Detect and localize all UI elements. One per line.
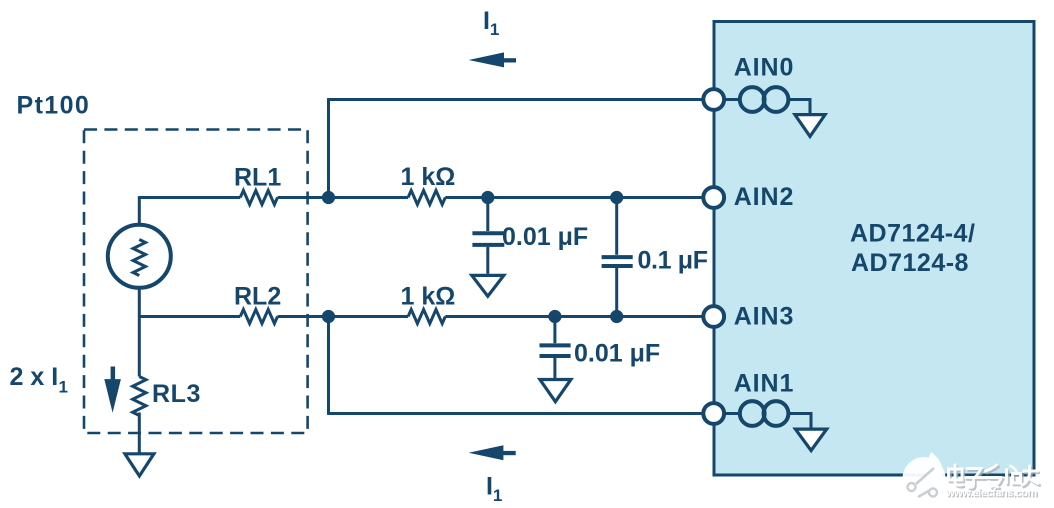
pin AIN0 circle [703,54,794,110]
svg-text:1: 1 [493,486,502,505]
svg-text:0.01 μF: 0.01 μF [574,339,660,367]
wire AIN0 row horizontal [329,98,713,101]
arrow I1 top pointing left [469,7,516,68]
svg-text:AD7124-4/: AD7124-4/ [850,220,975,248]
node C3 junction dot top of 0.1uF [610,191,623,204]
svg-text:2 x I: 2 x I [10,363,59,391]
arrow 2xI1 current direction down [10,363,121,413]
svg-text:RL3: RL3 [152,380,201,408]
capacitor C1 0.01uF top [472,198,588,274]
svg-text:1 kΩ: 1 kΩ [401,282,456,310]
svg-text:RL1: RL1 [234,164,281,192]
arrow I1 bottom pointing left [469,445,516,505]
pin AIN1 circle [703,370,794,424]
pin AIN3 circle [703,303,794,331]
current source at AIN0 [725,87,810,114]
pin AIN2 circle [703,183,794,211]
wire trunk AIN0 to node A [327,98,330,197]
svg-text:www.elecfans.com: www.elecfans.com [945,487,1037,499]
current source at AIN1 [725,401,811,428]
watermark chinese text 电子发烧友 [950,467,1039,489]
wire RTD vertical trunk [138,196,141,452]
resistor RL1 [234,164,281,205]
RTD sensor Pt100 circle with zigzag [17,92,171,288]
resistor R2 1 kOhm bottom [401,282,456,323]
svg-text:0.1 μF: 0.1 μF [638,247,708,275]
ground below C1 [472,275,504,296]
node B junction dot [322,310,335,323]
watermark logo elecfans [903,452,946,500]
svg-text:AIN0: AIN0 [734,54,795,82]
capacitor C2 0.01uF bottom [540,317,661,378]
wire AIN1 row horizontal [327,412,712,415]
ground below RL3 [125,454,154,476]
node C2 junction dot [548,310,561,323]
svg-text:Pt100: Pt100 [17,92,91,120]
svg-text:AIN3: AIN3 [734,303,795,331]
svg-text:1: 1 [490,20,499,39]
svg-text:RL2: RL2 [234,282,281,310]
ground below C2 [540,380,571,402]
node C1 junction dot [481,191,494,204]
svg-text:AD7124-8: AD7124-8 [851,249,969,277]
capacitor C3 0.1uF middle [602,198,708,317]
ground at AIN1 current source [795,429,826,450]
wire trunk node B to AIN1 row [327,317,330,414]
op-amp U1 ADC box AD7124 [714,22,1034,476]
resistor RL2 [234,282,281,323]
svg-text:0.01 μF: 0.01 μF [502,223,588,251]
svg-text:AIN2: AIN2 [734,183,795,211]
resistor RL3 [133,377,201,416]
resistor R1 1 kOhm top [401,163,456,205]
wire AIN2 row left segment with RL1 gap [139,196,712,199]
svg-text:1: 1 [59,378,68,397]
wire AIN3 row with RL2 gap [139,315,712,318]
node A junction dot [322,191,335,204]
ground at AIN0 current source [795,115,825,137]
svg-text:AIN1: AIN1 [734,370,795,398]
svg-text:1 kΩ: 1 kΩ [401,163,456,191]
dashed box sensor boundary [84,130,308,434]
node C3b junction dot bottom of 0.1uF [610,310,623,323]
